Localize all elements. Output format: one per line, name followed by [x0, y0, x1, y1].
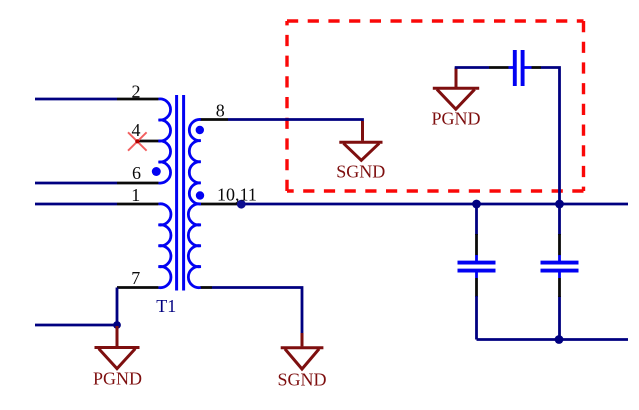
capacitor C1 pin top	[475, 234, 478, 256]
transformer T1 primary winding bottom (pins 1-7)	[159, 204, 171, 288]
junction dot C2 top	[555, 200, 564, 209]
ground PGND bottom-left	[95, 326, 140, 369]
ground SGND top	[339, 121, 382, 160]
junction dot bottom rail	[555, 335, 564, 344]
pin 8 stub	[200, 118, 228, 121]
polarity dot pin 8	[196, 126, 204, 134]
svg-text:1: 1	[131, 185, 140, 205]
wire pin1 left	[35, 203, 117, 206]
svg-text:6: 6	[132, 163, 141, 183]
capacitor C2 plates	[541, 255, 579, 278]
pin 1 stub	[117, 203, 159, 206]
junction dot pin7/PGND	[113, 321, 121, 329]
wire pin2 left	[35, 98, 117, 101]
capacitor C2 pin top	[558, 234, 561, 256]
capacitor C3 plates	[509, 50, 532, 86]
wire C3 to right rail	[541, 68, 560, 236]
wire pin6 left	[35, 182, 117, 185]
no-connect X on pin 4	[128, 132, 147, 150]
polarity dot pin 10,11	[196, 191, 204, 199]
svg-text:PGND: PGND	[431, 108, 480, 128]
capacitor C1 plates	[458, 255, 496, 278]
transformer T1 core	[177, 95, 184, 291]
annotation box (red dashed)	[287, 21, 584, 191]
junction dot pins 10,11	[237, 200, 246, 209]
wire pin7 to PGND node	[35, 288, 117, 326]
capacitor C1 pin bottom	[475, 278, 478, 297]
svg-text:7: 7	[131, 268, 140, 288]
ground PGND in box	[433, 68, 479, 110]
capacitor C1 bottom lead	[475, 296, 478, 340]
bottom return wire	[477, 338, 629, 341]
capacitor C2 pin bottom	[558, 278, 561, 297]
pin 4 stub	[137, 140, 161, 143]
svg-text:SGND: SGND	[336, 161, 385, 181]
pin 10,11 stub	[201, 203, 242, 206]
bottom secondary pin stub	[201, 286, 213, 289]
wire PGND to C3	[455, 66, 489, 69]
polarity dot pin 6	[152, 167, 161, 176]
svg-text:4: 4	[132, 120, 141, 140]
svg-text:T1: T1	[156, 296, 176, 316]
ground SGND bottom	[281, 333, 324, 369]
pin 6 stub	[117, 182, 159, 185]
junction dot C1 top	[472, 200, 481, 209]
svg-text:SGND: SGND	[277, 370, 326, 390]
capacitor C1 top lead	[475, 204, 478, 235]
wire C2 bottom lead	[558, 296, 561, 340]
pin 7 stub	[117, 286, 159, 289]
transformer T1 secondary winding (pins 8-10,11)	[188, 119, 200, 287]
wire pin8 to SGND	[228, 120, 363, 124]
svg-text:2: 2	[132, 82, 141, 102]
transformer T1 primary winding top (pins 2-4-6)	[159, 99, 171, 183]
main output wire	[241, 203, 628, 206]
pin 2 stub	[117, 98, 159, 101]
capacitor C3 pin right	[532, 66, 542, 69]
svg-text:10,11: 10,11	[217, 185, 257, 205]
wire secondary to SGND	[212, 288, 302, 335]
svg-text:PGND: PGND	[93, 369, 142, 389]
svg-text:8: 8	[216, 101, 225, 121]
capacitor C3 pin left	[489, 66, 509, 69]
